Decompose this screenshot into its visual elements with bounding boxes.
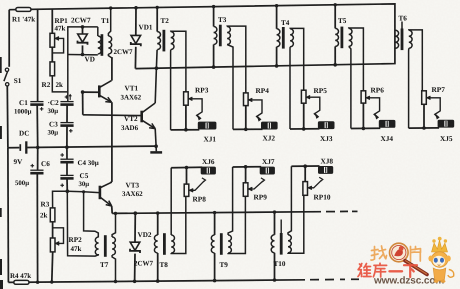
svg-text:www.dzsc.com: www.dzsc.com: [373, 276, 444, 287]
